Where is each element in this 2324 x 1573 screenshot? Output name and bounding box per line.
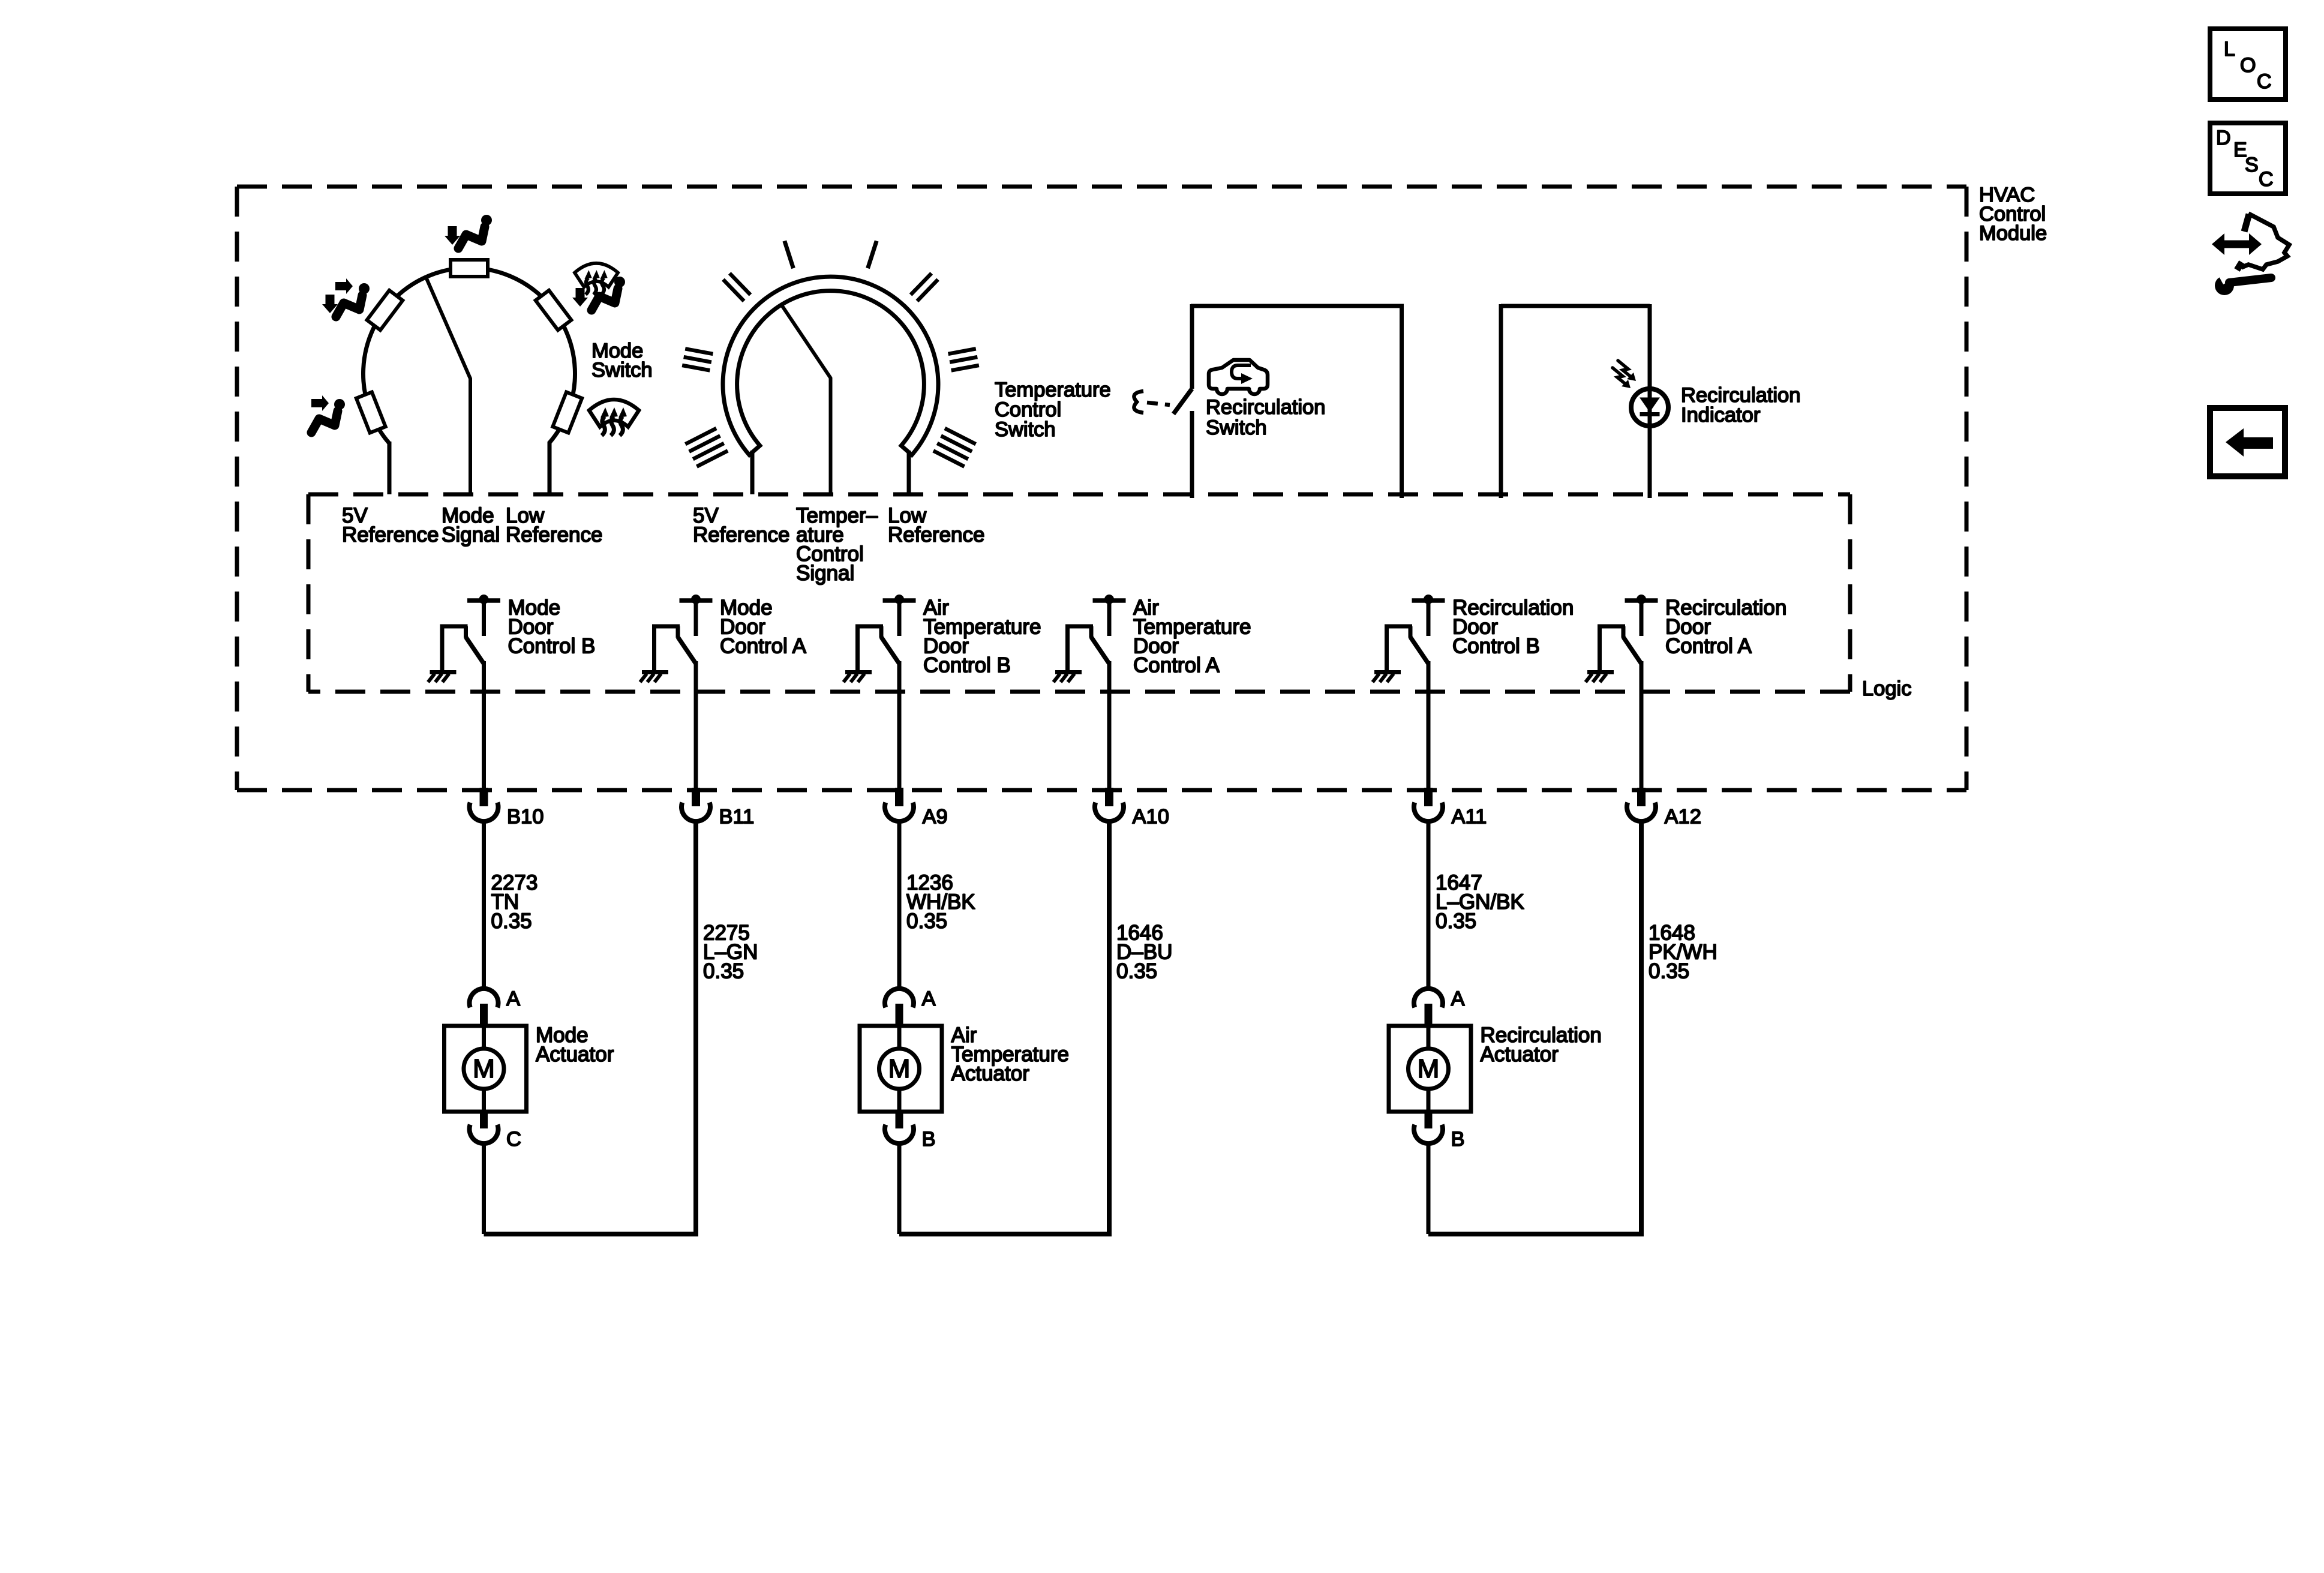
svg-text:0.35: 0.35	[491, 909, 532, 933]
svg-text:A: A	[506, 987, 520, 1010]
svg-text:Reference: Reference	[342, 523, 439, 547]
svg-text:0.35: 0.35	[703, 960, 744, 983]
svg-text:Control A: Control A	[720, 635, 807, 658]
svg-text:Actuator: Actuator	[536, 1043, 614, 1066]
svg-text:Reference: Reference	[888, 523, 984, 547]
svg-text:B11: B11	[719, 806, 755, 828]
svg-text:C: C	[2257, 70, 2272, 93]
svg-text:Reference: Reference	[506, 523, 602, 547]
svg-text:Actuator: Actuator	[951, 1062, 1030, 1085]
svg-text:Actuator: Actuator	[1481, 1043, 1559, 1066]
svg-text:0.35: 0.35	[1436, 909, 1476, 933]
svg-text:Control B: Control B	[508, 635, 596, 658]
svg-text:S: S	[2245, 154, 2259, 176]
svg-text:Signal: Signal	[442, 523, 500, 547]
svg-text:Indicator: Indicator	[1681, 404, 1760, 427]
svg-text:A12: A12	[1665, 806, 1701, 828]
svg-text:Recirculation: Recirculation	[1206, 396, 1325, 419]
svg-text:O: O	[2240, 54, 2256, 77]
svg-text:A: A	[922, 987, 936, 1010]
svg-text:A9: A9	[923, 806, 948, 828]
svg-text:C: C	[2259, 168, 2274, 191]
svg-text:C: C	[506, 1128, 521, 1151]
svg-text:M: M	[473, 1054, 495, 1083]
svg-text:Switch: Switch	[995, 418, 1056, 441]
svg-text:A10: A10	[1133, 806, 1169, 828]
svg-text:B: B	[922, 1128, 936, 1151]
svg-text:0.35: 0.35	[906, 909, 947, 933]
svg-text:B: B	[1451, 1128, 1465, 1151]
svg-text:M: M	[1418, 1054, 1440, 1083]
svg-text:Control A: Control A	[1133, 654, 1220, 677]
svg-text:D: D	[2216, 127, 2231, 149]
svg-text:A11: A11	[1452, 806, 1487, 828]
svg-text:Reference: Reference	[693, 523, 789, 547]
svg-text:Switch: Switch	[1206, 416, 1267, 439]
svg-text:B10: B10	[507, 806, 544, 828]
svg-text:Control A: Control A	[1665, 635, 1752, 658]
svg-text:Control B: Control B	[1452, 635, 1540, 658]
svg-text:0.35: 0.35	[1116, 960, 1157, 983]
svg-text:Module: Module	[1979, 222, 2047, 245]
svg-text:Switch: Switch	[591, 359, 653, 382]
svg-text:Logic: Logic	[1862, 677, 1911, 700]
svg-text:A: A	[1451, 987, 1465, 1010]
svg-text:M: M	[888, 1054, 911, 1083]
svg-text:0.35: 0.35	[1649, 960, 1689, 983]
svg-text:Control B: Control B	[923, 654, 1011, 677]
svg-text:Signal: Signal	[796, 562, 854, 585]
svg-text:L: L	[2224, 38, 2235, 61]
